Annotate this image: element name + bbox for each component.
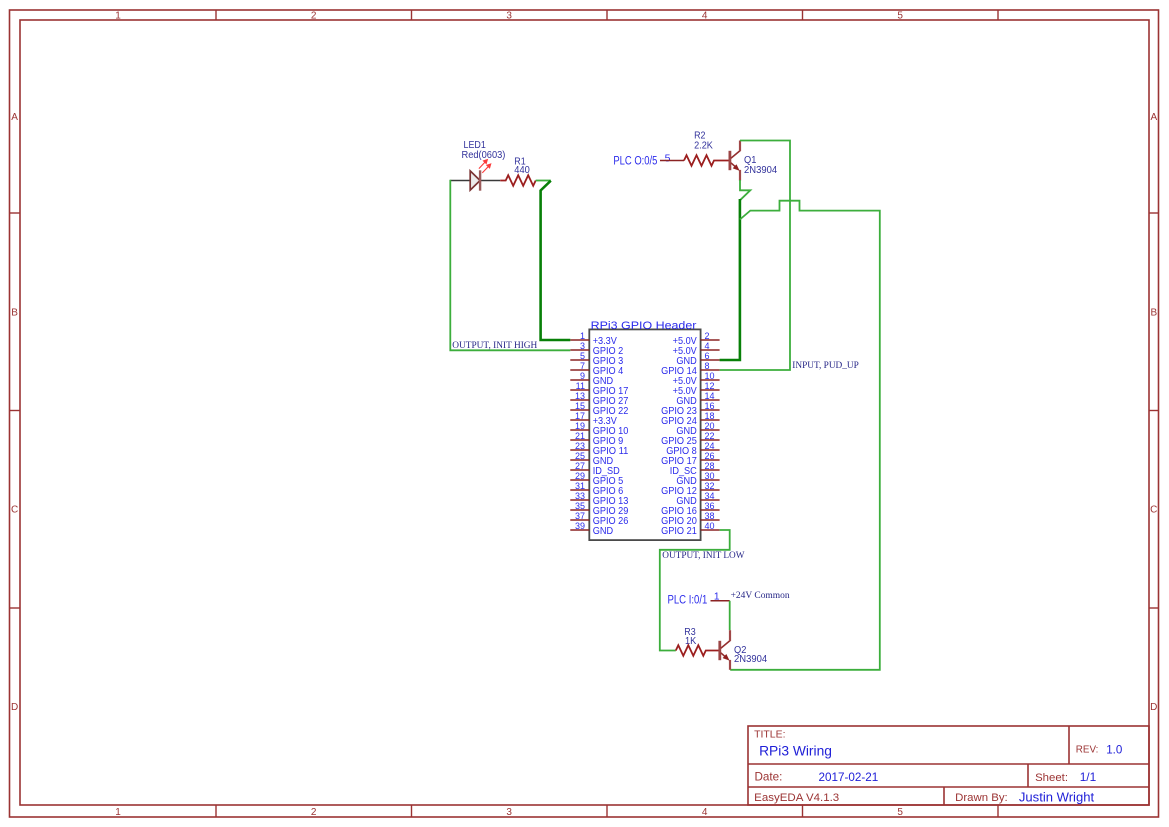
svg-text:4: 4 [702, 807, 708, 818]
wire PLC I:0/1 down to Q2 collector [729, 601, 731, 630]
pin 17 stub [570, 419, 589, 421]
pin 26 stub [701, 459, 720, 461]
frame column tick bottom [215, 805, 217, 817]
svg-text:2: 2 [705, 331, 710, 341]
svg-text:27: 27 [575, 461, 585, 471]
pin 24 stub [701, 449, 720, 451]
svg-text:1: 1 [115, 11, 121, 22]
wire LED1 cathode to R1 (black) [480, 180, 500, 182]
svg-text:B: B [1150, 307, 1157, 318]
svg-text:PLC I:0/1: PLC I:0/1 [668, 595, 708, 607]
wire GND net down to header pin 6 [720, 199, 740, 360]
svg-text:21: 21 [575, 431, 585, 441]
pin 6 stub [701, 359, 720, 361]
PLC O:0/5 pin 5 stub [660, 160, 684, 162]
svg-text:37: 37 [575, 511, 585, 521]
svg-text:GPIO 21: GPIO 21 [661, 526, 697, 537]
svg-text:TITLE:: TITLE: [754, 730, 785, 741]
pin 22 stub [701, 439, 720, 441]
svg-text:2017-02-21: 2017-02-21 [819, 771, 879, 784]
Q2 emitter arrow [723, 654, 729, 660]
wire LED1 anode down to header pin 3 [450, 180, 570, 351]
pin 15 stub [570, 409, 589, 411]
Q2 emitter lead [729, 660, 731, 670]
svg-text:29: 29 [575, 471, 585, 481]
svg-text:38: 38 [705, 511, 715, 521]
pin 12 stub [701, 389, 720, 391]
svg-text:1.0: 1.0 [1106, 744, 1122, 757]
pin 13 stub [570, 399, 589, 401]
svg-text:5: 5 [897, 807, 903, 818]
svg-text:14: 14 [705, 391, 715, 401]
pin 31 stub [570, 489, 589, 491]
svg-text:Drawn By:: Drawn By: [955, 792, 1008, 804]
pin 30 stub [701, 479, 720, 481]
wire Q1 emitter jog to GND net [740, 180, 750, 200]
pin 34 stub [701, 499, 720, 501]
Q2 emitter diagonal [721, 653, 727, 659]
svg-text:D: D [11, 702, 18, 713]
pin 38 stub [701, 519, 720, 521]
frame row tick left [10, 607, 21, 609]
pin 36 stub [701, 509, 720, 511]
svg-text:28: 28 [705, 461, 715, 471]
pin 39 stub [570, 529, 589, 531]
svg-text:5: 5 [897, 11, 903, 22]
svg-text:2N3904: 2N3904 [744, 165, 778, 176]
svg-text:35: 35 [575, 501, 585, 511]
svg-text:B: B [11, 307, 18, 318]
svg-text:32: 32 [705, 481, 715, 491]
LED emission arrow 1 [479, 160, 491, 173]
LED emission arrow 2 [482, 166, 489, 173]
frame column tick top [997, 10, 999, 20]
svg-text:5: 5 [580, 351, 585, 361]
pin 9 stub [570, 379, 589, 381]
pin 16 stub [701, 409, 720, 411]
svg-text:20: 20 [705, 421, 715, 431]
LED LED1 triangle [470, 171, 480, 190]
svg-text:15: 15 [575, 401, 585, 411]
svg-text:+24V Common: +24V Common [731, 590, 790, 601]
pin 25 stub [570, 459, 589, 461]
svg-text:A: A [11, 112, 18, 123]
svg-text:1: 1 [115, 807, 121, 818]
frame column tick bottom [802, 805, 804, 817]
frame column tick bottom [997, 805, 999, 817]
svg-text:2: 2 [311, 11, 317, 22]
svg-text:34: 34 [705, 491, 715, 501]
frame row tick right [1149, 607, 1159, 609]
svg-text:Sheet:: Sheet: [1035, 772, 1068, 784]
svg-text:3: 3 [580, 341, 585, 351]
svg-text:39: 39 [575, 521, 585, 531]
frame row tick right [1149, 212, 1159, 214]
wire R1 to header pin 1 (net OUTPUT INIT HIGH) [541, 181, 571, 340]
pin 3 stub [570, 349, 589, 351]
frame row tick left [10, 212, 21, 214]
svg-text:RPi3 Wiring: RPi3 Wiring [759, 744, 832, 759]
svg-text:24: 24 [705, 441, 715, 451]
svg-text:6: 6 [705, 351, 710, 361]
pin 11 stub [570, 389, 589, 391]
resistor R1 zigzag body [500, 175, 536, 186]
pin 32 stub [701, 489, 720, 491]
svg-text:5: 5 [665, 152, 671, 164]
pin 37 stub [570, 519, 589, 521]
frame column tick top [606, 10, 608, 20]
svg-text:23: 23 [575, 441, 585, 451]
pin 1 stub [570, 339, 589, 341]
svg-text:12: 12 [705, 381, 715, 391]
svg-text:30: 30 [705, 471, 715, 481]
resistor R3 zigzag body [676, 645, 719, 656]
pin 14 stub [701, 399, 720, 401]
svg-text:2N3904: 2N3904 [734, 654, 768, 665]
frame row tick left [10, 410, 21, 412]
svg-text:GND: GND [593, 526, 613, 537]
svg-text:C: C [1150, 505, 1157, 516]
svg-text:17: 17 [575, 411, 585, 421]
Q1 emitter lead [739, 170, 741, 181]
RPi3 GPIO Header component box U1 [589, 329, 700, 540]
svg-text:10: 10 [705, 371, 715, 381]
svg-text:3: 3 [506, 807, 512, 818]
frame column tick bottom [606, 805, 608, 817]
Q2 collector lead [729, 630, 731, 641]
svg-text:4: 4 [702, 11, 708, 22]
pin 10 stub [701, 379, 720, 381]
pin 29 stub [570, 479, 589, 481]
pin 7 stub [570, 369, 589, 371]
frame column tick top [215, 10, 217, 20]
svg-text:25: 25 [575, 451, 585, 461]
pin 28 stub [701, 469, 720, 471]
Q1 emitter arrow [733, 165, 739, 171]
svg-text:18: 18 [705, 411, 715, 421]
pin 33 stub [570, 499, 589, 501]
pin 21 stub [570, 439, 589, 441]
svg-text:RPi3 GPIO Header: RPi3 GPIO Header [591, 320, 697, 332]
pin 2 stub [701, 339, 720, 341]
LED cathode bar [479, 170, 481, 190]
pin 23 stub [570, 449, 589, 451]
svg-text:Red(0603): Red(0603) [462, 150, 506, 161]
svg-text:11: 11 [576, 381, 585, 391]
svg-text:Justin Wright: Justin Wright [1019, 790, 1095, 805]
wire header pin 40 GPIO21 to R3 (net OUTPUT INIT LOW) [660, 530, 730, 651]
title block [748, 726, 1149, 805]
svg-text:1/1: 1/1 [1080, 770, 1097, 784]
svg-text:13: 13 [575, 391, 585, 401]
svg-text:26: 26 [705, 451, 715, 461]
Q2 base bar [718, 641, 721, 660]
pin 4 stub [701, 349, 720, 351]
wire R1 right terminal [536, 180, 551, 182]
svg-text:16: 16 [705, 401, 715, 411]
svg-text:D: D [1150, 702, 1157, 713]
svg-text:1: 1 [580, 331, 585, 341]
svg-text:40: 40 [705, 521, 715, 531]
wire Q1 collector to header pin 8 GPIO14 [720, 141, 790, 371]
Q1 collector diagonal [731, 150, 741, 158]
pin 18 stub [701, 419, 720, 421]
pin 35 stub [570, 509, 589, 511]
wire GND net right with hop over GPIO14, down right side to Q2 emitter [730, 201, 880, 670]
svg-text:2: 2 [311, 807, 317, 818]
svg-text:PLC O:0/5: PLC O:0/5 [613, 155, 657, 167]
svg-text:4: 4 [705, 341, 710, 351]
svg-text:8: 8 [705, 361, 710, 371]
pin 5 stub [570, 359, 589, 361]
svg-text:3: 3 [506, 11, 512, 22]
svg-text:22: 22 [705, 431, 715, 441]
svg-text:36: 36 [705, 501, 715, 511]
svg-text:OUTPUT, INIT HIGH: OUTPUT, INIT HIGH [452, 340, 537, 351]
svg-text:C: C [11, 505, 18, 516]
frame column tick top [411, 10, 413, 20]
pin 8 stub [701, 369, 720, 371]
svg-text:7: 7 [580, 361, 585, 371]
svg-text:9: 9 [580, 371, 585, 381]
pin 19 stub [570, 429, 589, 431]
svg-text:19: 19 [575, 421, 585, 431]
svg-text:EasyEDA V4.1.3: EasyEDA V4.1.3 [754, 792, 839, 804]
svg-text:31: 31 [575, 481, 585, 491]
Q1 base bar [729, 151, 732, 170]
pin 40 stub [701, 529, 720, 531]
svg-text:33: 33 [575, 491, 585, 501]
frame row tick right [1149, 410, 1159, 412]
frame column tick top [802, 10, 804, 20]
Q1 emitter diagonal [731, 163, 737, 169]
svg-text:INPUT, PUD_UP: INPUT, PUD_UP [792, 360, 859, 371]
frame column tick bottom [411, 805, 413, 817]
wire LED1 anode (black) [450, 180, 470, 182]
svg-text:2.2K: 2.2K [694, 141, 713, 152]
Q2 collector diagonal [721, 640, 731, 648]
pin 27 stub [570, 469, 589, 471]
svg-text:A: A [1150, 112, 1157, 123]
svg-text:OUTPUT, INIT LOW: OUTPUT, INIT LOW [662, 550, 745, 561]
PLC I:0/1 pin 1 stub [711, 600, 730, 602]
Q1 collector lead [739, 141, 741, 152]
svg-text:1K: 1K [685, 636, 697, 647]
svg-text:REV:: REV: [1076, 745, 1099, 756]
svg-text:Date:: Date: [755, 771, 783, 784]
pin 20 stub [701, 429, 720, 431]
resistor R2 zigzag body [684, 155, 729, 166]
